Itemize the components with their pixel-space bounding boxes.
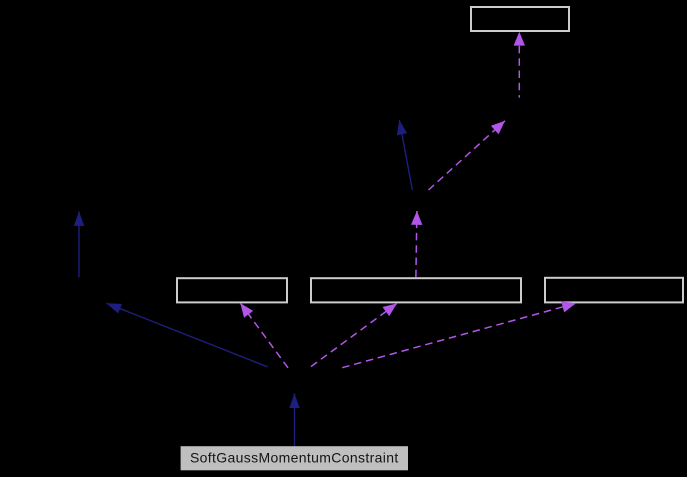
inheritance edge (solid blue, from SoftGaussMomentumConstraint) <box>294 393 296 446</box>
usage edge (dashed purple, to top box) <box>518 32 520 98</box>
node (empty box, top) <box>471 7 569 31</box>
svg-text:SoftGaussMomentumConstraint: SoftGaussMomentumConstraint <box>190 450 399 466</box>
inheritance edge (solid blue, upper middle) <box>399 120 412 190</box>
node (empty box, middle-right) <box>545 278 683 303</box>
node SoftGaussMomentumConstraint (main node) <box>181 446 408 470</box>
inheritance edge (solid blue, far left vertical) <box>78 211 80 277</box>
node (empty box, middle-left) <box>177 278 287 302</box>
inheritance edge (solid blue, diagonal to left node) <box>107 303 268 367</box>
node (empty box, middle-center) <box>311 278 521 302</box>
usage edge (dashed purple, long, to middle-right box) <box>342 303 576 368</box>
usage edge (dashed purple, to middle-left box) <box>240 303 288 368</box>
usage edge (dashed purple, vertical into middle-center box) <box>416 211 417 277</box>
usage edge (dashed purple, to middle-center box) <box>311 303 397 366</box>
usage edge (dashed purple, diagonal upper middle) <box>429 121 506 190</box>
